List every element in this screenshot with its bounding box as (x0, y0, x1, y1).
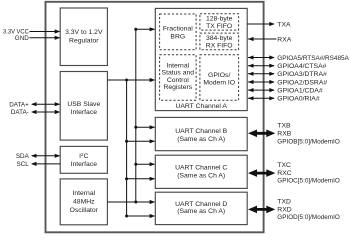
svg-text:Internal: Internal (166, 62, 189, 69)
svg-text:UART Channel C: UART Channel C (175, 165, 227, 172)
wire USB interface to UART A registers (107, 78, 155, 82)
svg-text:DATA-: DATA- (11, 109, 29, 116)
svg-text:128-byte: 128-byte (206, 16, 233, 23)
svg-text:TXA: TXA (277, 21, 291, 28)
svg-text:Status and: Status and (162, 70, 195, 77)
svg-text:DATA+: DATA+ (9, 101, 29, 108)
svg-text:GPIOA4/CTSA#: GPIOA4/CTSA# (277, 63, 326, 70)
wire clock bus to UART C (136, 162, 155, 166)
svg-text:3.3V to 1.2V: 3.3V to 1.2V (65, 29, 103, 36)
regulator block: 3.3V to 1.2V Regulator (60, 8, 107, 66)
384-byte RX FIFO sub-block (200, 33, 239, 50)
svg-text:TXB: TXB (277, 123, 291, 130)
wire TXA output (247, 22, 275, 26)
chip boundary (46, 2, 264, 233)
thick bidirectional bus arrow channel B (248, 130, 275, 138)
USB data bus vertical wire (126, 80, 128, 216)
svg-text:GPIOA2/DSRA#: GPIOA2/DSRA# (277, 79, 327, 86)
svg-text:UART Channel B: UART Channel B (175, 128, 227, 135)
svg-text:RXD: RXD (277, 206, 291, 213)
wire SDA bidirectional (31, 154, 60, 158)
wire GPIOA5 bidirectional (248, 55, 275, 59)
UART Channel D block (155, 192, 247, 224)
svg-text:BRG: BRG (170, 33, 185, 40)
svg-text:RXB: RXB (277, 131, 291, 138)
svg-text:TXC: TXC (277, 162, 291, 169)
USB slave interface block (60, 72, 107, 141)
svg-text:48MHz: 48MHz (73, 199, 95, 206)
svg-text:Interface: Interface (71, 109, 98, 116)
svg-text:Regulator: Regulator (69, 37, 99, 44)
wire USB bus to UART D (127, 214, 156, 218)
wire GND input (30, 36, 61, 40)
wire 3.3V VCC input (30, 29, 61, 33)
svg-text:Control: Control (167, 77, 189, 84)
svg-text:Internal: Internal (72, 190, 95, 197)
svg-text:(Same as Ch A): (Same as Ch A) (177, 172, 225, 179)
wire clock bus to UART B (136, 125, 155, 129)
svg-text:SDA: SDA (16, 153, 30, 160)
internal 48MHz oscillator block (60, 179, 107, 225)
wire GPIOA1 bidirectional (248, 88, 275, 92)
svg-text:GPIOB[5:0]/ModemIO: GPIOB[5:0]/ModemIO (277, 139, 340, 146)
svg-text:RX FIFO: RX FIFO (206, 43, 233, 50)
svg-text:TX FIFO: TX FIFO (206, 23, 232, 30)
junction dot USB bus at UART C line (125, 177, 128, 180)
junction dot USB bus at UART B line (125, 140, 128, 143)
wire RXA input (248, 37, 277, 41)
GPIOs / modem IO sub-block (200, 55, 239, 101)
wire GPIOA4 bidirectional (248, 64, 275, 68)
svg-text:GPIOD[5:0]/ModemIO: GPIOD[5:0]/ModemIO (277, 214, 340, 221)
wire USB bus to UART B (127, 139, 156, 143)
wire DATA+ bidirectional (31, 102, 60, 106)
wire oscillator output to UART D (107, 200, 155, 204)
wire GPIOA2 bidirectional (248, 80, 275, 84)
svg-text:RXC: RXC (277, 170, 291, 177)
wire SCL input (31, 162, 60, 166)
junction dot USB bus corner at UART D line (125, 215, 128, 218)
junction dot USB bus at UART A line (125, 79, 128, 82)
svg-text:Oscillator: Oscillator (70, 207, 99, 214)
wire DATA- bidirectional (31, 110, 60, 114)
junction dot clock bus at oscillator output line (134, 201, 137, 204)
svg-text:USB Slave: USB Slave (67, 101, 100, 108)
UART Channel B block (155, 117, 247, 150)
UART Channel A block (155, 8, 247, 110)
wire GPIOA0 bidirectional (248, 96, 275, 100)
svg-text:Interface: Interface (71, 161, 98, 168)
thick bidirectional bus arrow channel C (248, 169, 275, 177)
svg-text:384-byte: 384-byte (206, 35, 233, 42)
junction dot clock bus at UART C line (134, 163, 137, 166)
svg-text:GPIOA3/DTRA#: GPIOA3/DTRA# (277, 71, 327, 78)
wire USB bus to UART C (127, 177, 156, 181)
junction dot clock bus at UART B line (134, 126, 137, 129)
svg-text:GPIOA0/RIA#: GPIOA0/RIA# (277, 96, 320, 103)
svg-text:I2C: I2C (79, 152, 88, 160)
svg-text:TXD: TXD (277, 199, 291, 206)
svg-text:(Same as Ch A): (Same as Ch A) (177, 208, 225, 215)
internal status and control registers sub-block (160, 55, 197, 101)
svg-text:UART Channel A: UART Channel A (175, 103, 227, 110)
svg-text:GPIOA1/CDA#: GPIOA1/CDA# (277, 88, 323, 95)
svg-text:UART Channel D: UART Channel D (175, 201, 227, 208)
svg-text:Registers: Registers (163, 84, 192, 91)
svg-text:GPIOs/: GPIOs/ (208, 72, 230, 79)
svg-text:GPIOC[5:0]/ModemIO: GPIOC[5:0]/ModemIO (277, 178, 340, 185)
svg-text:Modem IO: Modem IO (203, 80, 235, 87)
I2C interface block (60, 146, 107, 173)
svg-text:(Same as Ch A): (Same as Ch A) (177, 136, 225, 143)
svg-text:SCL: SCL (17, 161, 30, 168)
junction dot clock bus top corner at UART A line (134, 28, 137, 31)
UART Channel C block (155, 155, 247, 188)
thick bidirectional bus arrow channel D (248, 206, 275, 214)
wire clock bus to UART A fractional BRG (136, 27, 155, 31)
128-byte TX FIFO sub-block (200, 14, 239, 30)
fractional BRG sub-block (160, 14, 197, 50)
svg-text:RXA: RXA (277, 36, 291, 43)
wire GPIOA3 bidirectional (248, 72, 275, 76)
svg-text:Fractional: Fractional (163, 26, 193, 33)
svg-text:GPIOA5/RTSA#/RS485A: GPIOA5/RTSA#/RS485A (277, 55, 349, 62)
clock bus vertical wire from oscillator (135, 29, 137, 202)
svg-text:GND: GND (15, 35, 29, 42)
